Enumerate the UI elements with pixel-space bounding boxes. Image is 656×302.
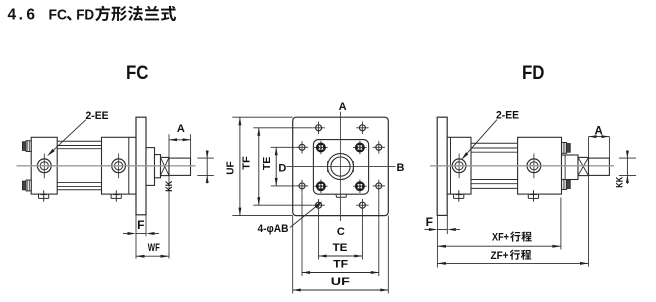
FD head bottom tie-rod nut bbox=[562, 179, 571, 190]
svg-text:UF: UF bbox=[226, 161, 237, 175]
title text 4.6 FC、FD方形法兰式 bbox=[7, 6, 176, 24]
svg-text:TE: TE bbox=[262, 156, 273, 170]
FD piston rod bbox=[589, 158, 610, 175]
FC rear port circle EE bbox=[36, 154, 53, 179]
FC pilot boss bbox=[146, 148, 155, 186]
FC rear bottom tie-rod nut bbox=[23, 180, 32, 191]
cushion boss tab bbox=[336, 194, 347, 197]
svg-text:WF: WF bbox=[148, 242, 160, 254]
FC rod thread box KK bbox=[161, 157, 170, 175]
FD centerline bbox=[430, 165, 614, 167]
FC dim A bbox=[169, 139, 191, 141]
mounting hole left-lower bbox=[296, 180, 308, 192]
FC A/WF extension line bbox=[168, 134, 170, 258]
rod boss flats bbox=[327, 161, 329, 172]
svg-text:FD: FD bbox=[522, 63, 545, 84]
svg-text:TE: TE bbox=[333, 242, 348, 254]
FD dim ZF label bbox=[491, 250, 532, 262]
svg-text:FC: FC bbox=[49, 7, 68, 24]
tie rod nut top-left bbox=[314, 141, 328, 155]
FD head port circle EE bbox=[525, 154, 542, 179]
tie rod nut top-right bbox=[353, 141, 367, 155]
svg-text:6: 6 bbox=[26, 7, 35, 24]
svg-text:A: A bbox=[177, 123, 185, 135]
svg-text:F: F bbox=[137, 218, 144, 232]
ext line TF bottom-right bbox=[378, 192, 380, 276]
FD flange plate bbox=[437, 117, 447, 215]
ext line flange top-left bbox=[232, 116, 292, 118]
FC flange plate bbox=[136, 117, 146, 215]
mounting hole left-upper bbox=[296, 141, 308, 153]
ext line TF bottom-left bbox=[301, 192, 303, 276]
bore circle bbox=[331, 157, 350, 176]
FC head cap bbox=[102, 137, 137, 194]
dim UF vertical bbox=[239, 117, 241, 215]
mounting hole bottom-left bbox=[312, 199, 324, 211]
mounting hole right-upper bbox=[373, 141, 385, 153]
FD dim XF label bbox=[492, 231, 532, 243]
FD rear port circle EE bbox=[451, 154, 468, 179]
cylinder profile square bbox=[313, 140, 368, 195]
svg-text:XF+: XF+ bbox=[492, 232, 509, 244]
mounting hole bottom-right bbox=[356, 199, 368, 211]
FC centerline bbox=[17, 165, 196, 167]
svg-text:2-EE: 2-EE bbox=[86, 110, 109, 122]
FD dim F ext lines bbox=[436, 215, 438, 267]
ext line TE bottom-left bbox=[318, 212, 320, 260]
svg-text:F: F bbox=[426, 215, 433, 229]
front view vertical centerline A-C bbox=[339, 112, 341, 221]
front view horizontal centerline D-B bbox=[286, 165, 395, 167]
ext line TF bottom bbox=[253, 204, 312, 206]
FC rod cover step bbox=[155, 155, 161, 178]
mounting hole top-right bbox=[356, 122, 368, 134]
FC rod diameter dim bbox=[206, 150, 208, 183]
ext line UF bottom-left bbox=[292, 216, 294, 294]
FC tube top outline bbox=[57, 140, 101, 142]
ext line TE bottom-right bbox=[361, 212, 363, 260]
svg-text:KK: KK bbox=[164, 181, 175, 192]
FD 2-EE leader bbox=[463, 120, 497, 158]
FC dim F ext lines bbox=[135, 215, 137, 259]
svg-text:KK: KK bbox=[615, 177, 626, 188]
ext line flange bottom-left bbox=[232, 215, 292, 217]
dim TF bottom bbox=[302, 272, 379, 274]
FD rod diameter dim bbox=[626, 150, 628, 184]
FD head top tie-rod nut bbox=[562, 143, 571, 154]
mounting hole right-lower bbox=[373, 180, 385, 192]
FC dim F bbox=[136, 233, 146, 235]
FC head cushion screw bbox=[111, 190, 121, 201]
FC 2-EE leader bbox=[49, 120, 86, 155]
ext line TF top bbox=[253, 127, 312, 129]
FC tube bottom outline bbox=[57, 189, 101, 191]
FD rod thread box KK bbox=[578, 157, 589, 175]
dim TF vertical bbox=[258, 128, 260, 205]
FC rear top tie-rod nut bbox=[23, 141, 32, 152]
tie rod nut bottom-left bbox=[314, 179, 328, 193]
svg-text:TF: TF bbox=[333, 259, 348, 271]
FD head cushion screw bbox=[528, 190, 538, 201]
svg-text:ZF+: ZF+ bbox=[491, 250, 509, 262]
FC rear cushion screw bbox=[39, 190, 49, 201]
FC dim WF bbox=[136, 255, 169, 257]
svg-text:C: C bbox=[337, 226, 345, 238]
flange square outline bbox=[293, 117, 389, 215]
svg-text:4: 4 bbox=[7, 7, 16, 24]
ext line TE bottom bbox=[271, 185, 296, 187]
FD XF extension line bbox=[560, 198, 562, 250]
svg-text:.: . bbox=[19, 7, 23, 24]
svg-text:UF: UF bbox=[331, 276, 350, 288]
svg-text:2-EE: 2-EE bbox=[496, 109, 519, 121]
FD dim A bbox=[589, 136, 610, 138]
ext line TE top bbox=[271, 146, 296, 148]
front view horizontal centerline D-B bbox=[286, 165, 395, 167]
FD tube top outline bbox=[471, 142, 518, 144]
FC piston rod bbox=[169, 158, 191, 175]
svg-text:FD: FD bbox=[76, 7, 94, 24]
svg-text:FC: FC bbox=[126, 63, 149, 84]
dim TE bottom bbox=[319, 255, 363, 257]
leader 4-phi-AB bbox=[290, 203, 321, 228]
svg-text:B: B bbox=[397, 162, 405, 174]
svg-text:D: D bbox=[278, 163, 286, 175]
svg-text:A: A bbox=[339, 101, 347, 113]
FC head port circle EE bbox=[110, 154, 127, 179]
FD dim F bbox=[437, 229, 447, 231]
FD dim ZF bbox=[437, 262, 588, 264]
dim UF bottom bbox=[293, 289, 389, 291]
front view vertical centerline A-C bbox=[339, 112, 341, 221]
FD pilot boss bbox=[562, 155, 579, 180]
FC rear end cap bbox=[31, 137, 57, 194]
FD rear cushion screw bbox=[454, 190, 464, 201]
dim TE vertical bbox=[275, 147, 277, 186]
FD dim XF bbox=[437, 245, 561, 247]
FD tube bottom outline bbox=[471, 187, 518, 189]
FD rear cap bbox=[447, 137, 471, 194]
rod boss circle bbox=[328, 154, 354, 180]
svg-text:TF: TF bbox=[241, 156, 252, 170]
FD A/ZF extension line bbox=[588, 137, 590, 267]
ext line UF bottom-right bbox=[387, 216, 389, 294]
FD head cap bbox=[518, 137, 562, 194]
mounting hole top-left bbox=[312, 122, 324, 134]
svg-text:4-φAB: 4-φAB bbox=[258, 223, 289, 235]
tie rod nut bottom-right bbox=[353, 179, 367, 193]
